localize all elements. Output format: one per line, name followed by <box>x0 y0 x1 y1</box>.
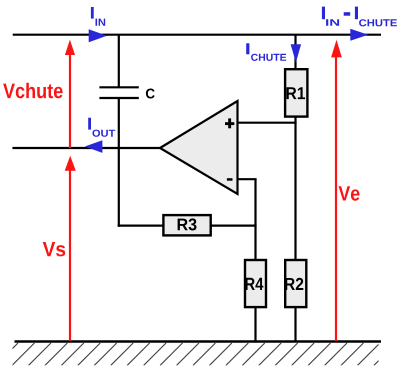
capacitor C plates <box>99 87 138 98</box>
label R4 <box>245 278 263 290</box>
wire: inverting input stub <box>238 178 257 180</box>
wire: R3 right to inverting node <box>210 225 257 227</box>
wire: capacitor bottom lead down through output rail <box>118 99 120 227</box>
wire: capacitor top lead <box>118 35 120 87</box>
label I_IN <box>91 7 105 26</box>
ground rail <box>15 340 382 343</box>
op-amp plus marking <box>225 118 234 128</box>
current arrow I_IN (blue, on top rail) <box>89 29 107 42</box>
wire: R1 bottom down to R2 <box>294 116 296 261</box>
label I_OUT <box>88 118 115 137</box>
wire: top rail <box>13 34 381 36</box>
label Ve <box>339 186 360 201</box>
wire: R4 bottom to ground <box>254 306 256 342</box>
wire: top rail down to R1 <box>294 35 296 70</box>
wire: R2 bottom to ground <box>294 306 296 342</box>
label Vchute <box>3 83 63 99</box>
label Vs <box>43 242 65 256</box>
label R2 <box>285 278 303 290</box>
op-amp minus marking <box>227 178 233 181</box>
label I_CHUTE <box>246 43 286 61</box>
ground hatching <box>0 343 396 365</box>
voltage arrow Vchute (red, between rails) <box>65 40 75 148</box>
wire: inverting node down to R4 <box>254 179 256 261</box>
resistor R4 <box>245 260 266 307</box>
voltage arrow Vs (red, ground to output rail) <box>65 156 76 341</box>
resistor R3 <box>163 215 210 235</box>
resistor R1 <box>285 69 307 116</box>
wire: output rail (middle left) <box>12 147 161 149</box>
label R1 <box>287 87 306 99</box>
wire: to R3 left <box>118 225 165 227</box>
op-amp U1 <box>160 101 238 194</box>
voltage arrow Ve (red, ground to top rail) <box>331 40 342 341</box>
current arrow I_OUT (blue, on output rail, pointing left) <box>85 140 103 153</box>
label I_IN - I_CHUTE <box>322 7 397 27</box>
resistor R2 <box>285 260 306 307</box>
current arrow I_CHUTE (blue, pointing down into R1) <box>291 44 302 62</box>
wire: non-inverting input to R1 bottom node <box>238 122 297 124</box>
label C <box>146 89 155 99</box>
current arrow I_IN minus I_CHUTE (blue, top right) <box>350 29 368 41</box>
label R3 <box>178 218 197 230</box>
